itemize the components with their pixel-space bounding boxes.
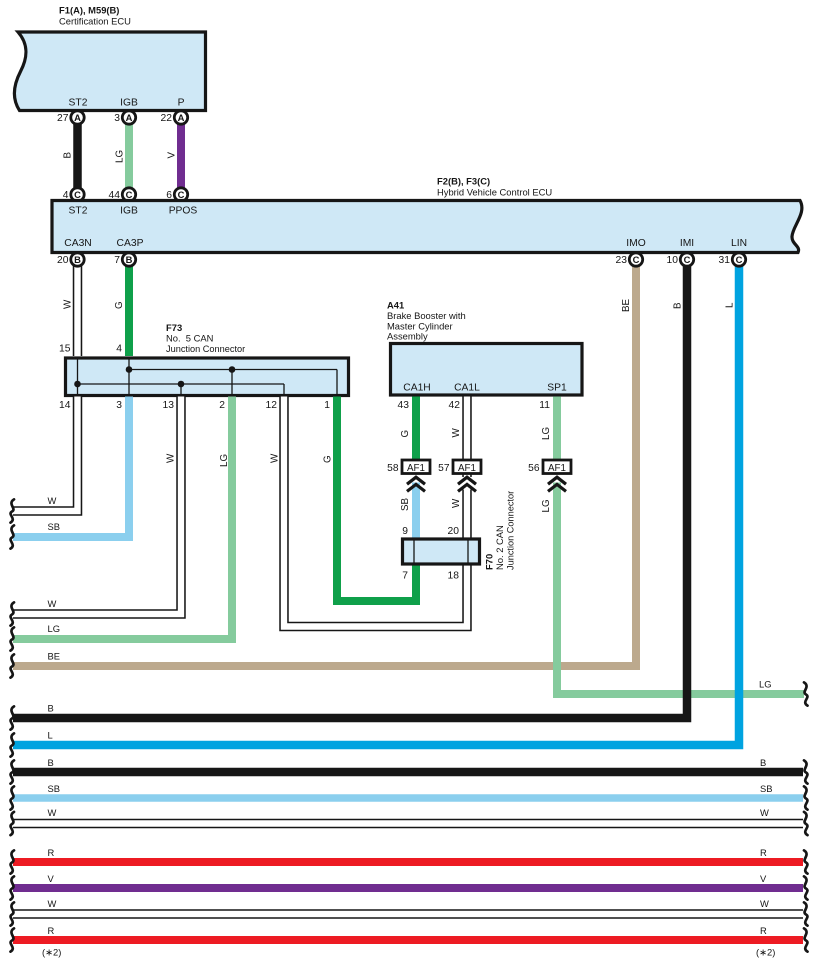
svg-text:G: G: [323, 455, 334, 463]
svg-text:9: 9: [402, 526, 408, 537]
junction dot F73 at pin 15 column: [74, 381, 81, 388]
svg-text:12: 12: [266, 400, 278, 411]
svg-text:SB: SB: [48, 521, 61, 532]
svg-text:1: 1: [324, 400, 330, 411]
svg-text:IMO: IMO: [626, 238, 645, 249]
wire LG from AF1 56 to right break: [557, 483, 804, 695]
svg-text:F2(B), F3(C): F2(B), F3(C): [437, 176, 490, 187]
svg-text:43: 43: [398, 400, 410, 411]
svg-text:G: G: [114, 301, 125, 309]
svg-text:B: B: [48, 703, 54, 714]
wire SB from F73 pin 3 to left break: [13, 397, 129, 538]
svg-text:B: B: [74, 254, 81, 265]
svg-text:G: G: [400, 430, 411, 438]
svg-text:31: 31: [719, 255, 731, 266]
svg-text:W: W: [166, 453, 177, 463]
svg-text:3: 3: [116, 400, 122, 411]
svg-text:B: B: [760, 757, 766, 768]
connector 58 AF1: [402, 460, 430, 474]
svg-text:13: 13: [163, 400, 175, 411]
svg-text:No. 2 CAN: No. 2 CAN: [494, 525, 505, 570]
svg-text:LG: LG: [48, 623, 61, 634]
svg-text:PPOS: PPOS: [169, 206, 198, 217]
svg-text:Brake Booster with: Brake Booster with: [387, 310, 466, 321]
svg-text:ST2: ST2: [69, 98, 88, 109]
svg-text:C: C: [736, 254, 743, 265]
svg-text:A: A: [126, 112, 133, 123]
svg-text:C: C: [74, 189, 81, 200]
svg-text:CA1L: CA1L: [454, 383, 480, 394]
wire SB from AF1 58 to F70 pin 9: [412, 483, 420, 540]
svg-text:B: B: [48, 757, 54, 768]
svg-text:56: 56: [528, 463, 540, 474]
svg-text:20: 20: [448, 526, 460, 537]
svg-text:F1(A), M59(B): F1(A), M59(B): [59, 5, 119, 16]
wire G from A41 CA1H pin 43 to connector AF1 58: [412, 397, 420, 461]
svg-text:BE: BE: [621, 298, 632, 312]
wire BE from IMO pin 23(C) to left break: [13, 260, 636, 667]
svg-text:CA3P: CA3P: [117, 238, 144, 249]
svg-text:ST2: ST2: [69, 206, 88, 217]
svg-text:18: 18: [448, 571, 460, 582]
wire L from LIN pin 31(C) to left break: [13, 260, 739, 746]
svg-text:V: V: [48, 873, 55, 884]
svg-text:3: 3: [114, 113, 120, 124]
wire W from A41 CA1L pin 42 through AF1 57 to F70 pin 20: [462, 397, 472, 461]
svg-text:BE: BE: [48, 651, 61, 662]
svg-text:IMI: IMI: [680, 238, 694, 249]
svg-text:11: 11: [539, 400, 550, 411]
svg-text:W: W: [48, 495, 57, 506]
svg-text:C: C: [126, 189, 133, 200]
svg-text:A41: A41: [387, 300, 404, 311]
A41 Brake Booster with Master Cylinder Assembly box: [391, 344, 583, 396]
wire G from F73 pin 1 to F70 pin 7: [337, 397, 416, 602]
svg-text:2: 2: [219, 400, 225, 411]
svg-text:Assembly: Assembly: [387, 331, 428, 342]
junction connector F73 box: [66, 358, 349, 396]
svg-text:IGB: IGB: [120, 98, 138, 109]
bus wire W2: [13, 909, 803, 919]
connector 56 AF1: [543, 460, 571, 474]
wire LG from IGB pin 3(A) to pin 44(C): [125, 118, 133, 195]
F73 internal wiring: [77, 359, 79, 394]
wire LG from A41 SP1 pin 11 to connector AF1 56: [553, 397, 561, 461]
svg-text:LG: LG: [219, 454, 230, 467]
junction dot F73 at pin 4 column: [126, 366, 133, 373]
svg-text:A: A: [74, 112, 81, 123]
svg-text:Hybrid Vehicle Control ECU: Hybrid Vehicle Control ECU: [437, 187, 552, 198]
svg-text:A: A: [178, 112, 185, 123]
svg-text:CA1H: CA1H: [403, 383, 430, 394]
svg-text:LG: LG: [759, 679, 772, 690]
svg-text:15: 15: [59, 344, 71, 355]
svg-text:W: W: [48, 807, 57, 818]
svg-text:R: R: [48, 847, 55, 858]
svg-text:AF1: AF1: [548, 463, 566, 474]
svg-text:P: P: [178, 98, 185, 109]
svg-text:W: W: [451, 428, 462, 438]
bus wire W: [13, 819, 803, 829]
svg-text:F73: F73: [166, 322, 182, 333]
svg-text:23: 23: [616, 255, 628, 266]
svg-text:20: 20: [57, 255, 69, 266]
svg-text:V: V: [760, 873, 767, 884]
svg-text:LG: LG: [115, 150, 126, 163]
svg-text:B: B: [63, 152, 74, 159]
svg-text:58: 58: [387, 463, 399, 474]
wire B from IMI pin 10(C) to left break: [13, 260, 687, 719]
svg-text:42: 42: [449, 400, 461, 411]
svg-text:B: B: [673, 302, 684, 309]
bus wire V: [13, 884, 803, 892]
bus wire R2 (*2): [13, 936, 803, 944]
svg-text:R: R: [760, 847, 767, 858]
svg-text:SB: SB: [400, 497, 411, 511]
svg-text:R: R: [48, 925, 55, 936]
svg-text:C: C: [633, 254, 640, 265]
svg-text:57: 57: [438, 463, 450, 474]
svg-text:B: B: [126, 254, 133, 265]
svg-text:27: 27: [57, 113, 69, 124]
svg-text:R: R: [760, 925, 767, 936]
svg-text:L: L: [48, 730, 53, 741]
svg-text:SP1: SP1: [547, 383, 567, 394]
svg-text:AF1: AF1: [458, 463, 476, 474]
junction dot F73 at pin 2 column: [229, 366, 236, 373]
wire LG from F73 pin 2 to left break: [13, 397, 232, 640]
junction connector F70 box: [403, 539, 480, 564]
svg-text:(∗2): (∗2): [756, 947, 775, 958]
svg-text:W: W: [451, 498, 462, 508]
svg-text:LG: LG: [541, 427, 552, 440]
svg-text:Junction Connector: Junction Connector: [506, 491, 516, 570]
junction dot F73 at pin 13 column: [178, 381, 185, 388]
svg-text:CA3N: CA3N: [64, 238, 91, 249]
wire B from ST2 pin 27(A) to pin 4(C): [73, 118, 82, 195]
wire W from F73 pin 12 to F70 pin 18: [284, 397, 467, 627]
svg-text:(∗2): (∗2): [42, 947, 61, 958]
wire V from P pin 22(A) to pin 6(C): [177, 118, 185, 195]
svg-text:LIN: LIN: [731, 238, 747, 249]
wire G from CA3P pin 7(B) to F73 pin 4: [125, 260, 133, 357]
wire W from F73 pin 14 to left break: [13, 397, 78, 512]
ECU F2(B)/F3(C) Hybrid Vehicle Control ECU box: [52, 201, 802, 253]
bus wire B: [13, 768, 803, 777]
svg-text:14: 14: [59, 400, 71, 411]
svg-text:IGB: IGB: [120, 206, 138, 217]
svg-text:4: 4: [116, 344, 122, 355]
svg-text:SB: SB: [48, 783, 61, 794]
svg-text:W: W: [270, 453, 281, 463]
svg-text:Junction Connector: Junction Connector: [166, 344, 245, 354]
wire W from CA3N pin 20(B) to F73 pin 15: [73, 260, 83, 357]
wire W from F73 pin 13 to left break: [13, 397, 181, 615]
svg-text:W: W: [760, 898, 769, 909]
svg-text:W: W: [760, 807, 769, 818]
ECU F1(A)/M59(B) Certification ECU box: [14, 32, 205, 111]
svg-text:W: W: [48, 898, 57, 909]
svg-text:C: C: [178, 189, 185, 200]
svg-text:V: V: [167, 152, 178, 159]
svg-text:7: 7: [114, 255, 120, 266]
svg-text:LG: LG: [541, 499, 552, 512]
bus wire R: [13, 858, 803, 866]
svg-text:Certification ECU: Certification ECU: [59, 16, 131, 27]
svg-text:AF1: AF1: [407, 463, 425, 474]
svg-text:No. 5 CAN: No. 5 CAN: [166, 333, 213, 344]
svg-text:7: 7: [402, 571, 408, 582]
svg-text:22: 22: [161, 113, 173, 124]
svg-text:C: C: [684, 254, 691, 265]
svg-text:L: L: [725, 302, 736, 308]
svg-text:F70: F70: [484, 554, 495, 570]
svg-text:10: 10: [667, 255, 679, 266]
svg-text:W: W: [48, 598, 57, 609]
connector 57 AF1: [453, 460, 481, 474]
svg-text:W: W: [63, 299, 74, 309]
bus wire SB: [13, 794, 803, 802]
svg-text:SB: SB: [760, 783, 773, 794]
